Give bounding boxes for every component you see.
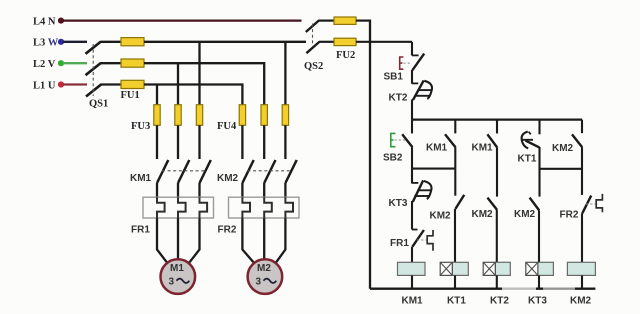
wire coil KM2 to rail [581,275,583,288]
contactor KM1 main pole 2 [178,160,189,183]
wire KM2 aux to FR2 [581,147,583,195]
contact KM2 aux (branch4) [530,198,540,211]
timer contact KT3 (delayed NC) [412,182,418,184]
wire coil KT3 to rail [538,275,540,288]
wire FR1 to coil KM1 [411,247,413,263]
switch QS1 pole 2 blade [86,63,101,75]
wire FU3-3 to KM1 [198,125,200,159]
svg-text:FR2: FR2 [560,210,579,221]
wire FU3-2 to KM1 [177,125,179,159]
wire FU3-1 to KM1 [156,125,158,159]
svg-text:M1: M1 [170,263,184,274]
wire L4/N feeder to QS2 [63,19,302,21]
wire U phase bus [144,85,242,106]
contactor KM1 linkage dashed [162,170,206,172]
wire through to KM2 contact [496,148,498,197]
wire control feed down to SB1 [411,42,413,56]
wire drop W to FU3-3 [198,42,200,105]
fuse FU4 element 3 [282,105,288,126]
wire SB1 to KT2 [411,70,413,84]
wire left rail (N) [369,20,371,289]
svg-text:KM2: KM2 [430,211,452,222]
wire KT2 to bus [411,100,413,120]
fuse FU1 element 1 [121,38,144,46]
svg-text:KM1: KM1 [472,142,494,153]
coil KT3 (timer) [538,262,554,275]
switch QS2 pole 2 blade [306,42,319,54]
wire KM2 poles to FR2 [241,183,243,198]
svg-text:KM2: KM2 [472,209,494,220]
contact KM2 aux (branch2) [456,195,465,209]
contact KM2 aux (branch5 NO) [572,134,582,147]
wire contact to coil KT1 [454,209,456,262]
svg-text:QS1: QS1 [89,99,108,110]
fuse FU4 element 1 [239,105,245,126]
fuse FU3 element 2 [175,105,181,126]
switch QS1 linkage dashed [92,44,94,96]
thermal relay FR1 box [143,197,214,218]
svg-text:KM2: KM2 [217,173,239,184]
svg-text:FU2: FU2 [336,50,355,61]
svg-text:KM1: KM1 [426,142,448,153]
wire QS1 pole1 to FU1 [100,41,122,43]
thermal contact FR1 (NC) [412,229,418,231]
FR1 heater element 1 [157,197,165,218]
wire FU2-2 to control branch (crosses rail) [356,41,412,43]
coil KT2 (timer) [495,262,510,275]
wire V phase bus [144,63,264,105]
motor M1 [161,259,196,294]
svg-text:FU4: FU4 [217,121,237,132]
fuse FU1 element 2 [121,59,144,67]
FR1 heater element 3 [200,197,208,218]
switch QS1 pole 3 blade [86,84,101,96]
svg-text:L1 U: L1 U [33,80,56,91]
contactor KM1 main pole 3 [200,160,211,183]
wire control bus [412,118,582,120]
wire bottom rail [370,288,595,290]
svg-text:KT1: KT1 [518,154,537,165]
coil KT1 (timer) [452,262,468,275]
switch QS2 linkage dashed [312,24,314,47]
node L2 V terminal dot [58,60,64,66]
wire bus to KM1 aux 2 [496,120,498,134]
node L1 U terminal dot [58,81,64,87]
contactor KM2 main pole 2 [264,160,275,183]
pushbutton SB1 (NC stop) [412,54,419,56]
wire FR2 to coil KM2 [581,213,583,262]
coil KM1 [398,262,426,275]
fuse FU4 element 2 [261,105,267,126]
FR2 heater element 2 [264,197,272,218]
svg-text:L4 N: L4 N [33,16,56,27]
fuse FU2 element 1 [334,17,356,24]
wire connector to KM2 NC (branch KT1 coil) [454,169,456,196]
svg-text:KM1: KM1 [130,173,152,184]
wire W phase bus to QS2 [144,41,306,43]
wire drop U to FU3-1 [156,85,158,106]
fuse FU3 element 1 [154,105,160,126]
wire QS1 pole2 to FU1 [100,62,122,64]
wire KM1 poles to FR1 [156,183,158,198]
wire drop V to FU3-2 [177,63,179,105]
wire L1/U feeder to QS1 [63,83,87,85]
thermal relay FR2 box [229,197,300,218]
timer contact KT1 (delayed NO) [522,132,529,149]
wire QS1 pole3 to FU1 [101,83,122,85]
wire FR1 to motor M1 [157,218,168,263]
FR2 heater element 1 [242,197,250,218]
wire bus to SB2 [411,120,413,134]
fuse FU3 element 3 [196,105,202,126]
svg-text:KT1: KT1 [447,295,466,306]
wire KT1 to connector2 node [538,147,540,197]
FR1 heater element 2 [178,197,186,218]
wire FU4-3 to KM2 [284,125,286,159]
wire KM1 aux to connector [454,147,456,168]
wire FU2-1 to left rail [356,20,371,22]
svg-text:KT2: KT2 [389,92,408,103]
wire SB2 to connector node [411,147,413,168]
svg-text:KM2: KM2 [552,143,574,154]
switch QS2 pole 1 blade [306,20,319,32]
svg-text:FR1: FR1 [390,238,409,249]
fuse FU1 element 3 [121,80,144,88]
wire L2/V feeder to QS1 [63,62,87,64]
wire KT3 to FR1 contact [411,201,413,230]
switch QS1 pole 1 blade [86,42,101,54]
contact KM1 aux 2 (NO) [487,134,497,147]
contactor KM2 main pole 1 [242,160,253,183]
contactor KM1 main pole 1 [157,160,168,183]
svg-text:FU3: FU3 [131,121,150,132]
svg-text:M2: M2 [257,263,271,274]
svg-text:L3 W: L3 W [33,38,59,49]
node L3 W terminal dot [58,39,64,45]
svg-text:FR1: FR1 [131,224,150,235]
svg-text:FR2: FR2 [218,224,237,235]
fuse FU2 element 2 [334,38,356,45]
wire parallel connector SB2/KM1 [412,168,455,170]
svg-text:SB1: SB1 [384,72,404,83]
contactor KM2 main pole 3 [285,160,296,183]
svg-text:KM1: KM1 [402,295,424,306]
svg-text:FU1: FU1 [121,90,140,101]
motor M2 [248,259,283,294]
contactor KM2 linkage dashed [248,170,292,172]
wire FR2 to motor M2 [242,218,254,263]
svg-text:KM2: KM2 [514,209,536,220]
contact KM1 aux (holding, NO) [445,134,456,147]
wire contact to coil KT3 [538,210,540,262]
svg-text:KM2: KM2 [570,295,592,306]
wire connector to KT3 [411,169,413,184]
wire bus to KM1 aux [454,120,456,134]
wire bus end down to KM2 aux [581,120,583,134]
svg-text:L2 V: L2 V [33,59,56,70]
wire L3/W feeder to QS1 [63,41,87,43]
svg-text:KT3: KT3 [389,198,408,209]
wire bus to KT1 contact [538,120,540,135]
wire coil KT2 to rail [496,275,498,288]
wire contact to coil KT2 [496,210,498,263]
svg-text:SB2: SB2 [383,153,403,164]
thermal contact FR2 (NC) [582,196,591,214]
timer contact KT2 (delayed) [412,82,418,84]
svg-text:KT3: KT3 [528,295,547,306]
svg-text:QS2: QS2 [304,61,323,72]
svg-text:KT2: KT2 [490,295,509,306]
wire QS2 pole2 to FU2 [319,41,334,43]
wire FU4-1 to KM2 [241,125,243,159]
contact KM2 aux (branch3) [487,198,497,210]
wire connector2 [540,168,583,170]
FR2 heater element 3 [285,197,293,218]
svg-text:3: 3 [256,277,262,288]
wire FU4-2 to KM2 [263,125,265,159]
svg-text:3: 3 [169,277,175,288]
coil KM2 [567,262,595,275]
wire coil KT1 to rail [454,275,456,288]
pushbutton SB2 (NO start) [402,134,412,147]
wire drop W to FU4-3 [284,42,286,105]
wire QS2 pole1 to FU2 [319,20,335,22]
watermark patches over rail [502,284,536,294]
node L4 N terminal dot [58,18,64,24]
wire coil KM1 to rail [411,275,413,288]
